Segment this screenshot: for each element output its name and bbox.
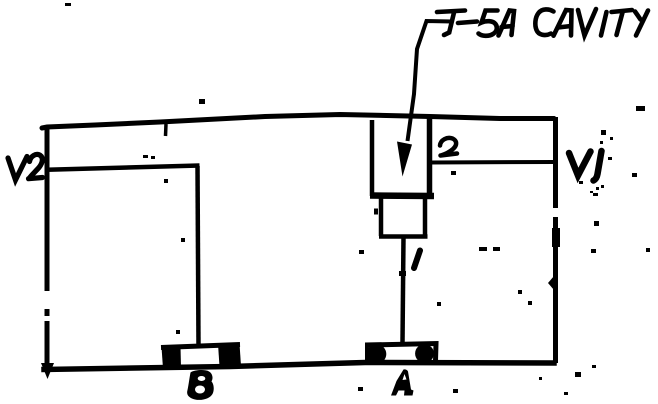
label B <box>187 370 214 400</box>
label 2 (pin 2) <box>440 138 457 156</box>
bottom edge <box>44 363 554 370</box>
label CAVITY (hand strokes) <box>535 9 648 36</box>
port A left seal <box>367 344 387 364</box>
label A <box>391 369 414 395</box>
port B bar <box>161 345 240 348</box>
leader line to cavity <box>408 21 453 141</box>
label V1 <box>569 151 602 181</box>
wire stem cavity to port A <box>403 237 404 343</box>
leader arrowhead <box>397 142 412 177</box>
blob on stem <box>399 271 406 276</box>
label 1 (pin 1) <box>414 251 420 269</box>
manifold block top edge <box>42 115 554 129</box>
port A bracket <box>368 344 437 362</box>
right border <box>553 117 558 208</box>
port V1 line <box>430 160 555 165</box>
label V2 <box>8 154 43 180</box>
right border blob <box>548 276 554 290</box>
cavity step <box>379 197 384 236</box>
port V2 line <box>47 166 200 170</box>
port B left seal block <box>162 347 182 369</box>
cavity outline <box>370 120 375 196</box>
wire V2 to port B <box>198 166 199 345</box>
left border centerline (dash-dot) <box>45 125 50 291</box>
left border arrowhead <box>41 363 54 379</box>
tick on top edge <box>164 124 168 136</box>
label T-5A (hand strokes) <box>437 11 514 36</box>
right border thick bulge <box>552 228 560 247</box>
port B right seal block <box>218 344 241 367</box>
port A right seal <box>415 344 434 363</box>
tick left of step <box>374 209 378 215</box>
